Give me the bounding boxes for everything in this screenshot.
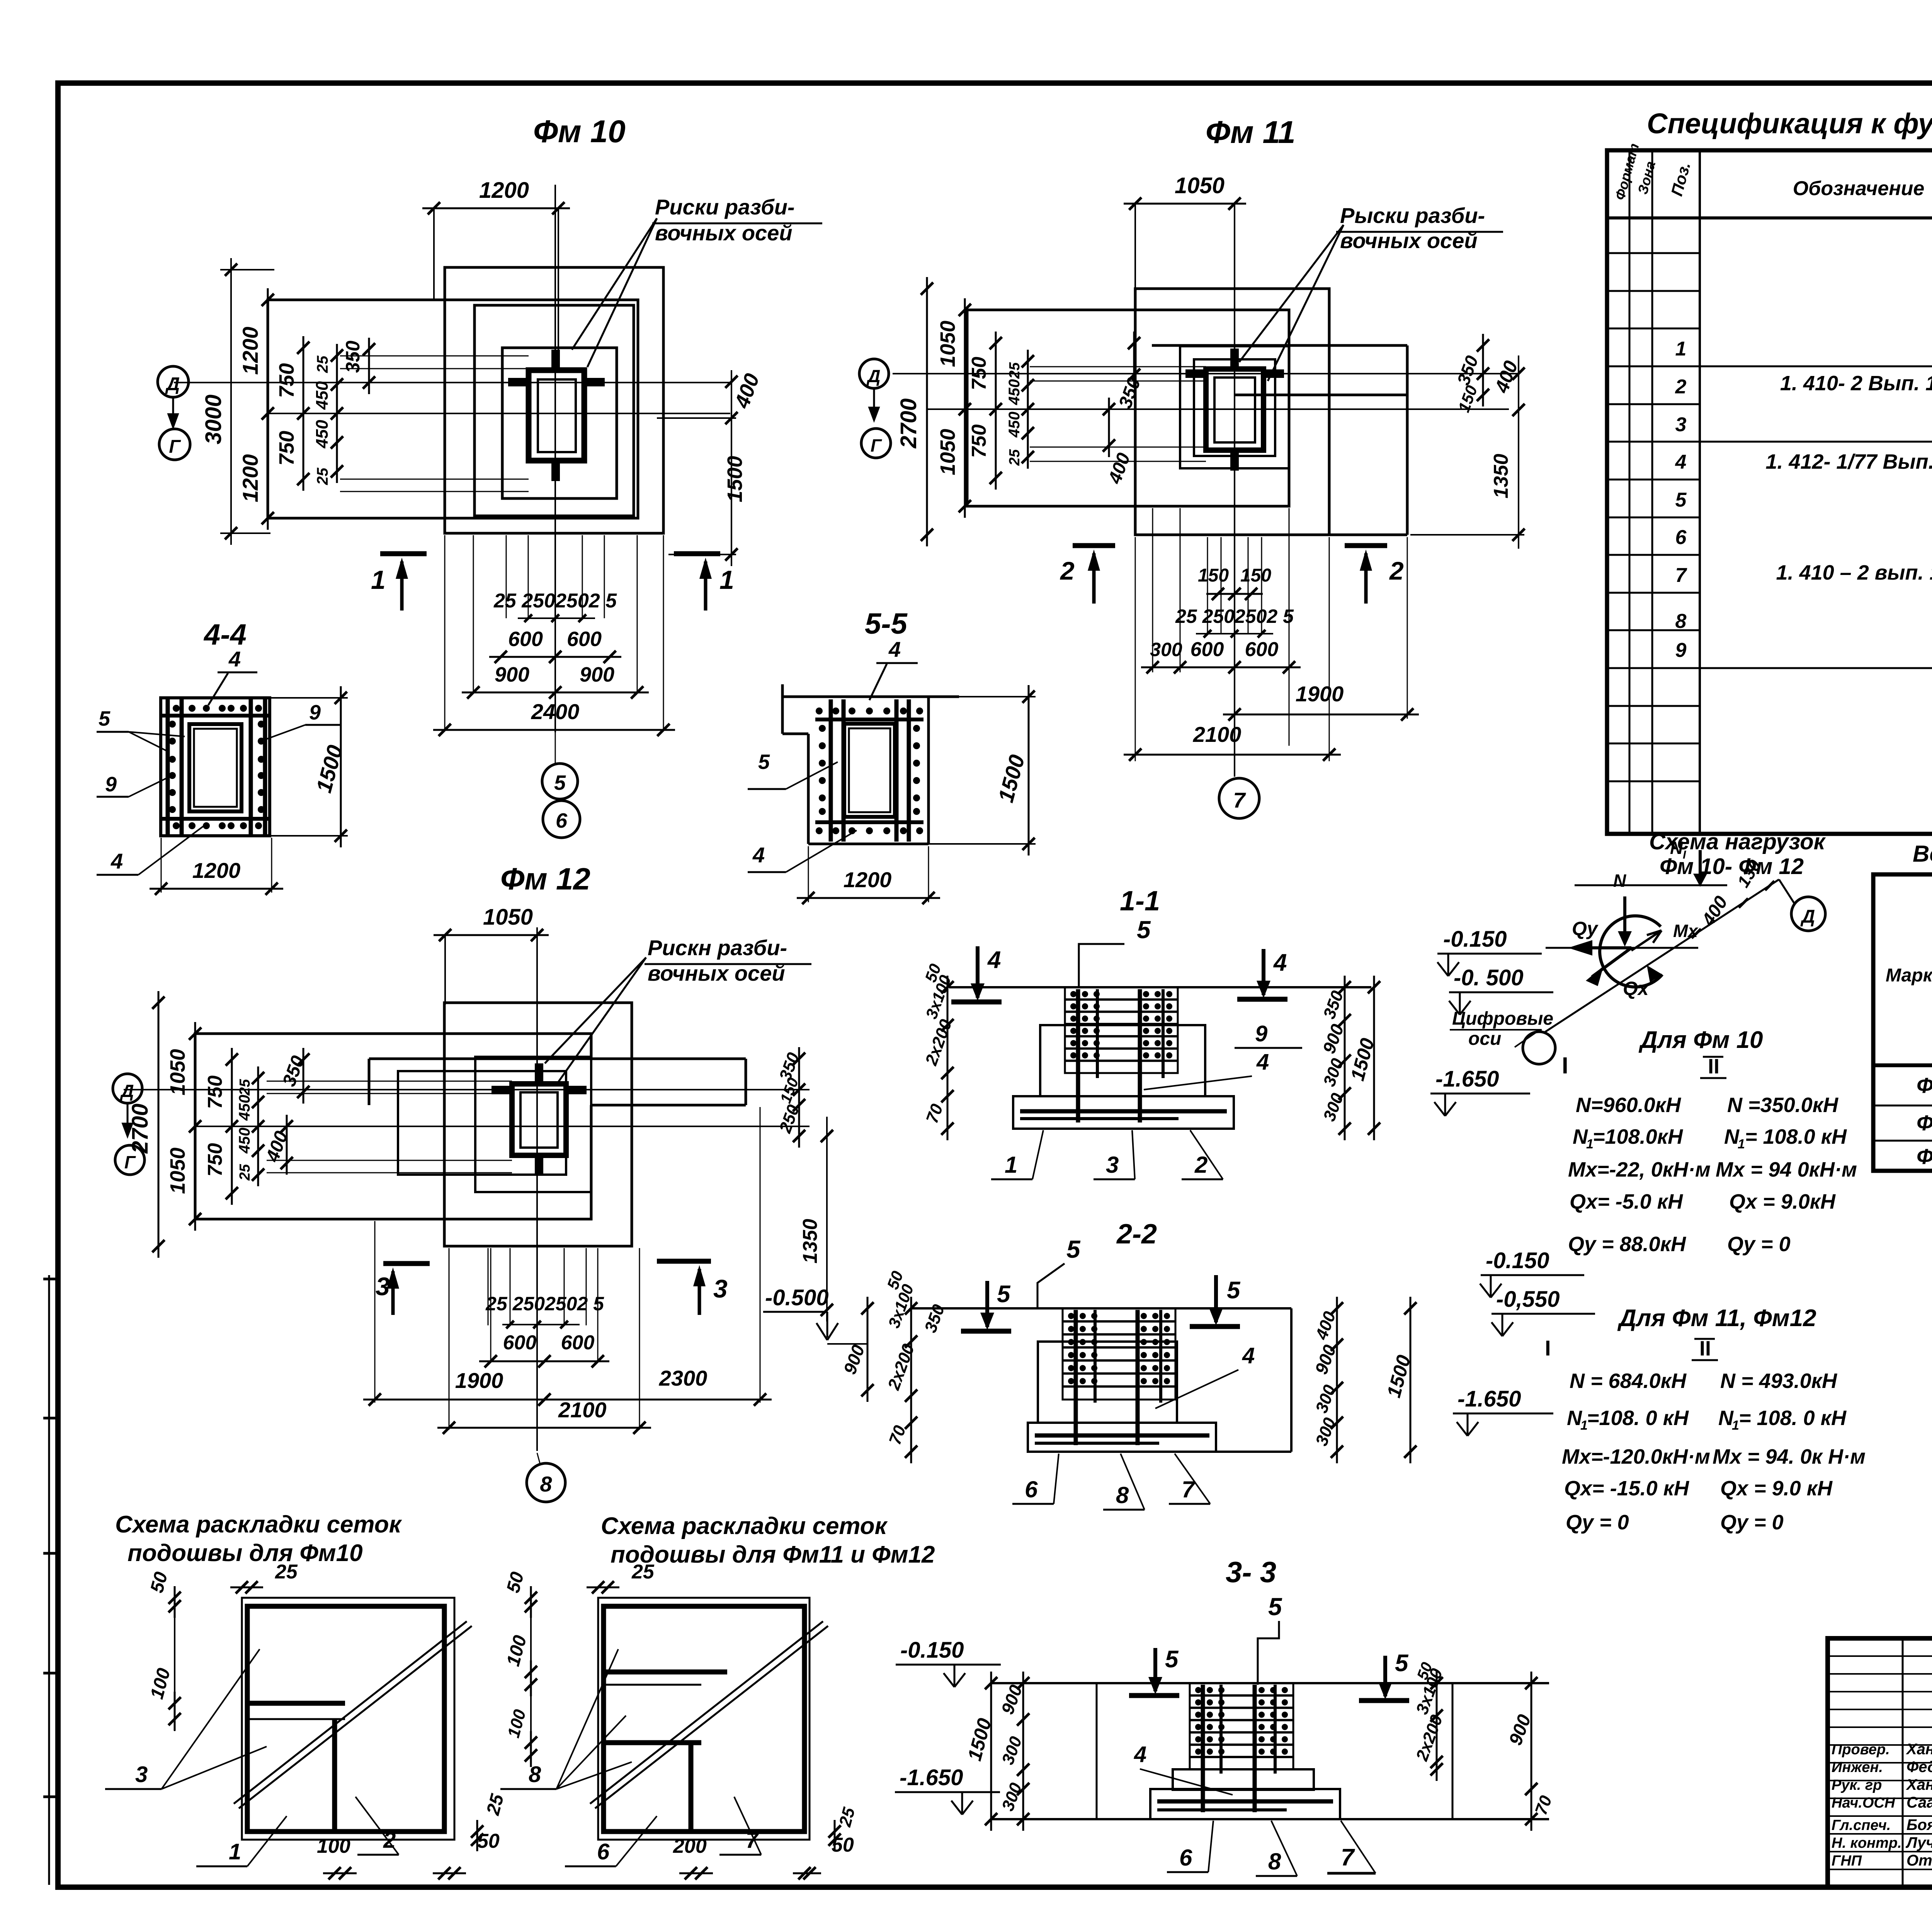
plan FM10 column xyxy=(529,370,584,461)
section 3-3 bottom slab xyxy=(1150,1789,1340,1819)
plan FM11 step outline 1 xyxy=(1180,346,1289,468)
svg-text:2100: 2100 xyxy=(1193,722,1242,747)
svg-text:600: 600 xyxy=(1245,638,1279,661)
svg-text:150: 150 xyxy=(1240,565,1271,586)
plan FM11 centerlines xyxy=(1234,204,1235,777)
section 1-1 load arrow 4 left xyxy=(976,946,980,998)
svg-text:8: 8 xyxy=(1675,610,1687,633)
svg-text:N: N xyxy=(1718,1406,1734,1430)
svg-text:1050: 1050 xyxy=(936,321,959,367)
mesh layout FM11-12 mesh 2 lines xyxy=(604,1670,727,1675)
svg-text:450: 450 xyxy=(236,1128,253,1154)
svg-text:4: 4 xyxy=(1273,949,1287,976)
svg-text:5: 5 xyxy=(758,750,770,774)
section 1-1 axis circle I xyxy=(1523,1032,1555,1064)
plan FM10 dimension 350 xyxy=(368,338,370,394)
svg-text:5: 5 xyxy=(1675,489,1687,511)
plan FM10 pit outline xyxy=(445,267,663,533)
plan FM12 step outline 1 xyxy=(475,1057,591,1192)
plan FM11 mesh mark circle 7 xyxy=(1219,778,1259,818)
svg-text:II: II xyxy=(1708,1055,1719,1078)
svg-text:600: 600 xyxy=(567,628,602,651)
svg-text:Ханин: Ханин xyxy=(1906,1741,1932,1758)
svg-text:900: 900 xyxy=(495,663,529,686)
svg-text:Ханин: Ханин xyxy=(1906,1776,1932,1793)
svg-text:1: 1 xyxy=(1005,1152,1017,1178)
svg-text:Цифровые: Цифровые xyxy=(1452,1009,1553,1029)
plan FM11 section arrows 2-2 xyxy=(1073,543,1115,548)
svg-text:9: 9 xyxy=(309,701,321,724)
svg-text:II: II xyxy=(1699,1337,1711,1360)
svg-text:150: 150 xyxy=(1198,565,1229,586)
svg-text:5: 5 xyxy=(1395,1650,1409,1677)
svg-text:2: 2 xyxy=(1194,1152,1207,1178)
section 2-2 bottom slab xyxy=(1028,1423,1216,1452)
svg-text:Федотова: Федотова xyxy=(1906,1759,1932,1776)
svg-text:5: 5 xyxy=(1066,1235,1081,1263)
plan FM11 axis circle G xyxy=(861,429,891,458)
svg-text:3: 3 xyxy=(713,1274,728,1303)
plan FM10 bottom dimension 900 900 xyxy=(462,692,649,694)
plan FM10 bottom dimension 600 600 xyxy=(489,656,621,658)
svg-text:25: 25 xyxy=(1007,449,1023,466)
section 5-5 dimension 1200 xyxy=(808,846,809,902)
svg-text:8: 8 xyxy=(1268,1849,1281,1874)
svg-text:750: 750 xyxy=(968,357,990,390)
svg-text:Фм 12: Фм 12 xyxy=(1917,1144,1932,1168)
svg-text:750: 750 xyxy=(275,431,298,466)
svg-text:2700: 2700 xyxy=(896,398,921,449)
svg-text:Саакьянц: Саакьянц xyxy=(1906,1794,1932,1811)
svg-text:Рискн разби-: Рискн разби- xyxy=(648,935,787,960)
plan FM11 left chain 450 450 25 xyxy=(1027,350,1029,469)
svg-text:Фм 11: Фм 11 xyxy=(1206,115,1296,150)
section 4-4 inner column void xyxy=(189,724,241,811)
title block signature grid xyxy=(1902,1638,1904,1887)
section 1-1 right dim chain 350 900 300 300 300 xyxy=(1344,976,1346,1140)
svg-text:900: 900 xyxy=(580,663,614,686)
section 5-5 body outline xyxy=(782,696,959,698)
svg-text:4: 4 xyxy=(888,637,901,662)
svg-text:Qу = 0: Qу = 0 xyxy=(1727,1233,1791,1256)
section 2-2 load arrow 5 right xyxy=(1214,1275,1218,1322)
svg-text:Мх=-120.0кН·м: Мх=-120.0кН·м xyxy=(1562,1445,1710,1468)
section 5-5 dimension 1500 xyxy=(929,696,1036,697)
section 4-4 rebar dots xyxy=(173,705,180,712)
svg-text:3- 3: 3- 3 xyxy=(1226,1556,1276,1589)
section 3-3 right dim 70 xyxy=(1531,1777,1532,1831)
svg-text:= 108. 0 кН: = 108. 0 кН xyxy=(1739,1406,1847,1430)
section 3-3 column block xyxy=(1190,1683,1293,1769)
svg-text:1. 412- 1/77 Вып. 3: 1. 412- 1/77 Вып. 3 xyxy=(1765,450,1932,473)
svg-text:1200: 1200 xyxy=(238,454,262,502)
svg-text:Фм 10: Фм 10 xyxy=(1917,1073,1932,1097)
plan FM12 centerlines xyxy=(536,927,538,1451)
svg-text:1350: 1350 xyxy=(1490,454,1512,498)
svg-text:350: 350 xyxy=(342,340,364,373)
svg-text:Обозначение: Обозначение xyxy=(1793,177,1925,200)
svg-text:7: 7 xyxy=(1341,1844,1355,1871)
plan FM12 pit outline xyxy=(444,1003,632,1246)
specification table grid xyxy=(1607,150,1932,834)
mesh layout FM10 slab outline xyxy=(242,1598,454,1840)
svg-text:2400: 2400 xyxy=(531,699,580,724)
svg-text:1-1: 1-1 xyxy=(1120,886,1160,917)
svg-text:25: 25 xyxy=(1007,362,1023,379)
svg-text:Qх = 9.0кН: Qх = 9.0кН xyxy=(1729,1190,1836,1213)
load scheme N arrow xyxy=(1623,896,1626,944)
svg-text:1: 1 xyxy=(719,565,734,595)
plan FM11 left dimensions 1050 1050 xyxy=(964,298,966,518)
svg-text:Д: Д xyxy=(165,374,180,395)
svg-text:4: 4 xyxy=(228,647,241,671)
section 3-3 right dim chain 2x200 3x100 50 xyxy=(1436,1672,1438,1781)
svg-text:7: 7 xyxy=(1233,788,1246,812)
svg-text:450: 450 xyxy=(1006,379,1023,405)
plan FM10 slab outline xyxy=(268,300,638,518)
svg-text:450: 450 xyxy=(1006,412,1023,438)
svg-text:Спецификация к фундаментам: Спецификация к фундаментам Фм10- Фм 12 xyxy=(1647,107,1932,139)
plan FM10 mesh mark circle 5 xyxy=(542,764,578,799)
svg-text:9: 9 xyxy=(1255,1021,1267,1046)
plan FM10 centerlines xyxy=(554,185,556,732)
plan FM11 axis circle D xyxy=(859,359,889,388)
svg-text:-0.150: -0.150 xyxy=(900,1638,964,1663)
section 2-2 column bars xyxy=(1074,1310,1078,1445)
svg-text:450: 450 xyxy=(313,381,332,410)
svg-text:750: 750 xyxy=(204,1075,226,1109)
load scheme Qy arrow and moment arc xyxy=(1600,916,1662,987)
svg-text:2: 2 xyxy=(1389,556,1404,585)
section 5-5 inner column void xyxy=(844,724,895,817)
svg-text:1050: 1050 xyxy=(1175,173,1225,198)
section 3-3 load arrow 5 right xyxy=(1383,1656,1387,1696)
section 3-3 ground block edges xyxy=(1096,1683,1098,1819)
svg-text:1200: 1200 xyxy=(192,858,241,883)
svg-text:3: 3 xyxy=(1106,1152,1119,1178)
svg-text:Фм 10: Фм 10 xyxy=(533,114,626,149)
svg-text:Qу = 0: Qу = 0 xyxy=(1720,1511,1784,1534)
svg-text:300: 300 xyxy=(1150,639,1182,660)
plan FM11 right dimensions 150 350 xyxy=(1482,334,1484,406)
plan FM12 column xyxy=(512,1084,566,1155)
svg-text:25 2502502 5: 25 2502502 5 xyxy=(485,1293,604,1315)
svg-text:Ведомость расхода стали на: Ведомость расхода стали на элемент , кг xyxy=(1913,841,1932,867)
plan FM12 bottom dimension 2100 xyxy=(437,1427,651,1429)
svg-text:Для Фм 10: Для Фм 10 xyxy=(1638,1027,1763,1053)
section 3-3 left dim 1500 xyxy=(990,1672,992,1831)
svg-text:Риски разби-: Риски разби- xyxy=(655,195,795,219)
plan FM12 axis circle G xyxy=(115,1145,145,1175)
section 4-4 body xyxy=(161,698,270,836)
svg-text:N: N xyxy=(1724,1125,1740,1148)
plan FM11 bottom dimension 300 600 600 xyxy=(1141,667,1301,668)
plan FM11 bottom dimension 1900 xyxy=(1223,714,1419,716)
plan FM12 left dimensions 1050 1050 xyxy=(194,1022,196,1231)
svg-text:1. 410- 2 Вып. 1: 1. 410- 2 Вып. 1 xyxy=(1780,372,1932,395)
svg-text:2: 2 xyxy=(1675,376,1687,398)
svg-text:N=960.0кН: N=960.0кН xyxy=(1576,1094,1681,1117)
svg-text:Фм 12: Фм 12 xyxy=(500,862,590,896)
section 2-2 right dim 1500 xyxy=(1410,1297,1412,1463)
svg-text:N: N xyxy=(1573,1125,1588,1148)
svg-text:750: 750 xyxy=(968,424,990,458)
svg-text:N =350.0кН: N =350.0кН xyxy=(1727,1094,1838,1117)
svg-text:Г: Г xyxy=(169,437,181,457)
svg-text:Мх = 94 0кН·м: Мх = 94 0кН·м xyxy=(1716,1158,1857,1181)
section 3-3 step block xyxy=(1173,1769,1314,1790)
plan FM12 extension lines to column xyxy=(267,1081,512,1082)
svg-text:1050: 1050 xyxy=(936,429,959,475)
plan FM11 right dimensions 400 1350 xyxy=(1518,355,1519,549)
plan FM11 bottom dimension 2100 xyxy=(1124,754,1341,756)
left fold marks xyxy=(43,1278,59,1281)
section 3-3 load arrow 5 left xyxy=(1153,1648,1157,1691)
svg-text:2100: 2100 xyxy=(558,1398,607,1422)
svg-text:1200: 1200 xyxy=(238,327,262,375)
svg-text:4: 4 xyxy=(111,849,123,873)
section 1-1 column block xyxy=(1065,987,1178,1073)
title block outer xyxy=(1828,1638,1932,1887)
section 1-1 right dim 1500 xyxy=(1373,976,1375,1140)
svg-text:25 2502502 5: 25 2502502 5 xyxy=(493,590,617,612)
plan FM10 left chain 25 450 450 25 xyxy=(336,344,338,483)
svg-text:Инжен.: Инжен. xyxy=(1832,1759,1883,1776)
svg-text:600: 600 xyxy=(503,1332,537,1354)
svg-text:9: 9 xyxy=(105,773,117,796)
svg-text:25: 25 xyxy=(237,1164,253,1181)
plan FM10 left dimension 3000 xyxy=(230,258,232,545)
svg-text:2700: 2700 xyxy=(128,1104,153,1154)
plan FM10 section arrows 1-1 xyxy=(380,551,427,556)
mesh layout FM11-12 slab outline xyxy=(598,1598,810,1840)
section 2-2 left dim 900 xyxy=(867,1297,869,1402)
svg-text:Qx: Qx xyxy=(1623,978,1650,999)
svg-text:Марка элемента: Марка элемента xyxy=(1886,965,1932,986)
svg-text:I: I xyxy=(1683,849,1686,861)
mesh layout FM10 mesh 2 lines xyxy=(247,1701,345,1706)
load scheme Mx label arrow xyxy=(1631,930,1662,951)
plan FM10 step outline 1 xyxy=(474,305,634,516)
svg-text:Лученко: Лученко xyxy=(1905,1834,1932,1851)
plan FM12 step outline 2 xyxy=(398,1071,566,1175)
svg-text:6: 6 xyxy=(1025,1476,1038,1502)
svg-text:Qу = 88.0кН: Qу = 88.0кН xyxy=(1568,1233,1686,1256)
svg-text:1050: 1050 xyxy=(166,1148,189,1194)
svg-text:450: 450 xyxy=(236,1095,253,1121)
svg-text:7: 7 xyxy=(1675,564,1687,587)
plan FM12 left dimensions 750 750 xyxy=(231,1048,233,1205)
svg-text:600: 600 xyxy=(1190,638,1224,661)
svg-text:5: 5 xyxy=(99,707,111,730)
plan FM10 extension lines to column xyxy=(340,355,529,357)
svg-text:Д: Д xyxy=(1800,906,1815,927)
plan FM12 right dimension 1350 xyxy=(826,1117,828,1321)
section 1-1 ground top line xyxy=(949,986,1371,988)
left fold strip line xyxy=(48,1275,50,1885)
section 2-2 right dim chain 400 900 300 300 xyxy=(1336,1297,1338,1463)
svg-text:Фм 11: Фм 11 xyxy=(1917,1111,1932,1135)
svg-text:1. 410 – 2 вып. 1: 1. 410 – 2 вып. 1 xyxy=(1776,561,1932,584)
svg-text:подошвы для Фм11 и Фм12: подошвы для Фм11 и Фм12 xyxy=(611,1541,935,1568)
svg-text:1050: 1050 xyxy=(166,1049,189,1095)
section 2-2 ground top line xyxy=(910,1307,1291,1310)
section 2-2 step block xyxy=(1038,1342,1177,1423)
svg-text:5: 5 xyxy=(1165,1646,1179,1673)
section 3-3 ground top line xyxy=(991,1682,1549,1684)
svg-text:4: 4 xyxy=(1675,451,1687,473)
plan FM12 left dimension 2700 xyxy=(158,991,160,1258)
plan FM12 axis circle D xyxy=(113,1074,142,1103)
section 2-2 load arrow 5 left xyxy=(985,1281,989,1327)
svg-text:3: 3 xyxy=(1675,413,1687,436)
load scheme N1 arrow xyxy=(1699,850,1702,884)
mesh layout FM10 mesh 1 xyxy=(247,1606,444,1832)
plan FM11 left dimension 2700 xyxy=(926,277,928,546)
plan FM11 column xyxy=(1206,369,1264,450)
svg-text:50: 50 xyxy=(477,1830,500,1852)
svg-text:5-5: 5-5 xyxy=(865,607,908,640)
plan FM12 dimension 400 left xyxy=(286,1115,288,1175)
svg-text:Г: Г xyxy=(871,435,882,456)
plan FM12 bottom extension lines xyxy=(488,1248,489,1325)
svg-text:25: 25 xyxy=(237,1079,253,1096)
plan FM11 leader risks xyxy=(1239,225,1344,362)
svg-text:4: 4 xyxy=(1242,1343,1255,1368)
svg-text:4: 4 xyxy=(752,843,765,867)
svg-text:Мх: Мх xyxy=(1673,921,1699,941)
svg-text:1: 1 xyxy=(1732,1418,1739,1433)
section 1-1 column bars xyxy=(1076,989,1080,1122)
plan FM11 dimension 350 left xyxy=(1133,332,1135,386)
plan FM11 slab outline xyxy=(967,310,1289,506)
svg-text:25: 25 xyxy=(314,468,331,485)
svg-text:6: 6 xyxy=(556,809,568,832)
svg-text:4: 4 xyxy=(1256,1049,1269,1075)
plan FM10 bottom dimension 2400 xyxy=(433,729,675,731)
svg-text:оси: оси xyxy=(1468,1029,1501,1049)
plan FM11 dimension 400 left xyxy=(1108,398,1110,457)
svg-text:N = 493.0кН: N = 493.0кН xyxy=(1720,1369,1837,1393)
svg-text:Qх = 9.0 кН: Qх = 9.0 кН xyxy=(1720,1477,1833,1500)
svg-text:I: I xyxy=(1545,1336,1551,1360)
svg-text:Qх= -15.0 кН: Qх= -15.0 кН xyxy=(1564,1477,1689,1500)
svg-text:1500: 1500 xyxy=(723,456,747,502)
svg-text:-0.500: -0.500 xyxy=(765,1285,828,1310)
svg-text:-1.650: -1.650 xyxy=(1435,1066,1499,1092)
plan FM11 pit outline xyxy=(1135,289,1329,535)
svg-text:N: N xyxy=(1567,1406,1582,1430)
mesh layout FM10 diagonal line xyxy=(234,1621,467,1804)
plan FM12 right dimensions 350 150 250 xyxy=(798,1047,800,1148)
svg-text:600: 600 xyxy=(508,628,543,651)
plan FM12 bottom dimension 1900 2300 xyxy=(363,1399,772,1401)
plan FM10 axis circle G xyxy=(159,429,190,460)
svg-text:Схема раскладки сеток: Схема раскладки сеток xyxy=(601,1513,888,1539)
svg-text:ГНП: ГНП xyxy=(1832,1853,1862,1869)
load scheme horizontal lines xyxy=(1575,884,1727,886)
svg-text:I: I xyxy=(1562,1053,1568,1078)
svg-text:Qy: Qy xyxy=(1572,918,1599,939)
svg-text:1350: 1350 xyxy=(799,1219,821,1264)
svg-text:25: 25 xyxy=(275,1561,298,1583)
svg-text:750: 750 xyxy=(275,363,298,398)
plan FM12 leader risks xyxy=(545,957,646,1063)
svg-text:-0. 500: -0. 500 xyxy=(1454,965,1524,990)
svg-text:100: 100 xyxy=(317,1835,350,1857)
svg-text:1: 1 xyxy=(1738,1137,1745,1151)
plan FM11 extension lines to column xyxy=(1030,366,1206,367)
svg-text:-0.150: -0.150 xyxy=(1486,1248,1549,1273)
svg-text:Д: Д xyxy=(866,366,880,386)
svg-text:4: 4 xyxy=(987,947,1001,973)
svg-text:Схема раскладки сеток: Схема раскладки сеток xyxy=(115,1511,402,1538)
load scheme axis circle D xyxy=(1791,897,1825,931)
svg-text:Гл.спеч.: Гл.спеч. xyxy=(1832,1817,1891,1833)
plan FM10 axis circle D xyxy=(158,366,189,397)
svg-text:5: 5 xyxy=(1137,916,1151,944)
section 5-5 mesh bands xyxy=(815,718,923,721)
section 3-3 ground bottom line xyxy=(991,1818,1549,1820)
svg-text:N: N xyxy=(1613,871,1626,891)
svg-text:5: 5 xyxy=(997,1281,1011,1308)
svg-text:Г: Г xyxy=(124,1152,136,1172)
svg-text:200: 200 xyxy=(673,1835,707,1857)
section 3-3 column bars xyxy=(1201,1685,1205,1812)
section 4-4 dimension 1500 xyxy=(270,697,348,699)
svg-text:1200: 1200 xyxy=(479,178,529,203)
svg-text:2300: 2300 xyxy=(659,1366,707,1390)
mesh layout FM11-12 mesh 1 xyxy=(604,1606,804,1832)
section 3-3 left dim chain xyxy=(1022,1672,1024,1831)
section 4-4 dimension 1200 xyxy=(161,838,162,893)
plan FM11 bottom dimension 150 150 xyxy=(1206,593,1263,595)
svg-text:Мх = 94. 0к Н·м: Мх = 94. 0к Н·м xyxy=(1713,1445,1866,1468)
plan FM12 bottom dimension 600 600 xyxy=(479,1361,609,1362)
svg-text:3000: 3000 xyxy=(201,395,226,444)
svg-text:8: 8 xyxy=(1116,1482,1129,1508)
svg-text:2-2: 2-2 xyxy=(1116,1219,1157,1250)
plan FM10 leader risks xyxy=(572,218,657,350)
svg-text:Для Фм 11, Фм12: Для Фм 11, Фм12 xyxy=(1617,1305,1816,1332)
svg-text:5: 5 xyxy=(1227,1277,1241,1304)
svg-text:3: 3 xyxy=(376,1272,390,1301)
svg-text:1900: 1900 xyxy=(455,1368,503,1393)
plan FM10 left dimensions 750 750 xyxy=(303,336,304,491)
section 2-2 left dim chain xyxy=(910,1297,912,1463)
plan FM11 step outline 2 xyxy=(1194,359,1275,456)
svg-text:450: 450 xyxy=(313,420,332,449)
svg-text:Рыски разби-: Рыски разби- xyxy=(1340,203,1485,228)
section 1-1 left dim chain xyxy=(947,976,949,1140)
svg-text:1200: 1200 xyxy=(844,867,892,892)
svg-text:Д: Д xyxy=(119,1081,134,1101)
svg-text:1: 1 xyxy=(1675,338,1687,360)
plan FM12 dimension 350 left xyxy=(303,1048,304,1104)
svg-text:подошвы для Фм10: подошвы для Фм10 xyxy=(128,1540,363,1566)
svg-text:=108. 0 кН: =108. 0 кН xyxy=(1587,1406,1689,1430)
section 1-1 step block xyxy=(1040,1025,1205,1096)
plan FM11 right wing outline xyxy=(1152,344,1407,347)
plan FM11 top dimension 1050 xyxy=(1134,204,1136,292)
svg-text:2: 2 xyxy=(1060,556,1075,585)
svg-text:Боярченко: Боярченко xyxy=(1906,1816,1932,1833)
plan FM11 left dimensions 750 750 xyxy=(995,332,997,490)
svg-text:6: 6 xyxy=(1179,1845,1192,1871)
svg-text:4: 4 xyxy=(1134,1742,1146,1767)
plan FM12 left chain 450 450 25 xyxy=(257,1066,259,1186)
svg-text:5: 5 xyxy=(1268,1593,1282,1621)
